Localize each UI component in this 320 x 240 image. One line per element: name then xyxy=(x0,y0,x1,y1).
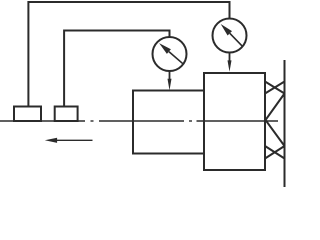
centerline dash 2 xyxy=(99,120,184,122)
centerline dash 1 xyxy=(0,120,85,122)
shaft small section xyxy=(133,91,204,154)
chuck lower cross leg b xyxy=(265,146,285,159)
centerline dot 2 xyxy=(189,120,192,122)
dial indicator 2 body xyxy=(213,19,247,53)
leader wire from block 1 to right gauge xyxy=(28,2,229,107)
chuck upper cross leg b xyxy=(265,82,285,94)
dial indicator 2 needle xyxy=(230,33,243,46)
dial indicator 1 probe arrow xyxy=(169,71,171,83)
centerline dot 1 xyxy=(91,120,94,122)
support block 1 xyxy=(14,107,41,122)
leader wire from block 2 to left gauge xyxy=(64,31,169,107)
support block 2 xyxy=(55,107,78,122)
chuck lower cross leg a xyxy=(265,146,285,159)
dial indicator 1 body xyxy=(153,37,187,71)
dial indicator 1 needle xyxy=(169,52,183,64)
dial indicator 2 probe arrow xyxy=(229,53,231,65)
rotation direction arrow xyxy=(56,139,93,141)
centerline dash 3 xyxy=(197,120,279,122)
shaft large section xyxy=(204,73,265,170)
chuck center vee xyxy=(266,94,285,147)
chuck rail xyxy=(284,60,286,187)
chuck upper cross leg a xyxy=(265,82,285,94)
